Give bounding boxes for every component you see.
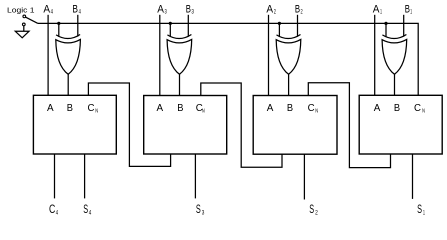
wire: carry net FA3 carry-out to FA4 CN [88,83,170,166]
svg-text:4: 4 [89,211,92,217]
label B3 [186,4,194,16]
svg-text:N: N [422,108,425,114]
ground [15,31,29,38]
svg-text:B: B [295,4,300,16]
pin label B (FA2) [287,102,293,114]
pin label B (FA4) [67,102,73,114]
svg-text:Logic 1: Logic 1 [7,6,35,15]
wire XOR3 output to FA2 pin B [288,74,290,96]
svg-text:2: 2 [315,211,318,217]
svg-text:B: B [405,4,410,16]
svg-text:4: 4 [56,211,59,217]
label A1 [373,4,382,16]
pin label CN (FA1) [414,102,425,115]
label C4 [49,202,59,216]
pin label CN (FA4) [88,102,99,115]
wire S1 output [412,154,414,199]
svg-text:A: A [43,4,50,16]
wire B4 input [77,15,79,37]
wire XOR1 left input [58,23,60,36]
svg-text:3: 3 [165,9,168,16]
svg-text:C: C [308,102,315,114]
svg-text:4: 4 [79,9,81,16]
wire B3 input [187,15,189,37]
wire S2 output [303,154,305,199]
svg-text:C: C [49,202,56,216]
label S2 [309,202,318,216]
wire XOR1 output to FA4 pin B [67,74,69,96]
wire A3 input [159,15,161,96]
node: rail to XOR1 junction [58,22,60,24]
label S1 [417,202,425,216]
wire ground stub [23,26,25,31]
svg-text:B: B [72,4,78,16]
svg-text:A: A [374,102,381,114]
wire C4 output [54,154,56,198]
svg-text:N: N [315,108,318,114]
pin label A (FA4) [47,102,54,114]
wire A4 input [47,15,49,96]
svg-text:B: B [177,102,183,114]
svg-text:4: 4 [51,9,54,16]
pin label A (FA2) [267,102,274,114]
wire A2 input [268,15,270,96]
full adder FA2 (bit 2) [253,96,337,155]
pin label B (FA1) [394,102,400,114]
wire B1 input [403,15,405,37]
node: rail to XOR2 junction [169,22,171,24]
wire XOR4 left input [385,23,387,36]
wire B2 input [297,15,299,37]
svg-text:C: C [88,102,95,114]
svg-text:B: B [186,4,191,16]
wire: carry net FA2 carry-out to FA3 CN [201,83,282,167]
svg-text:S: S [309,202,314,216]
wire: add/sub control rail (node M) [38,23,418,95]
svg-text:N: N [95,108,98,114]
label A4 [43,4,53,16]
svg-text:N: N [202,108,205,114]
svg-text:S: S [417,202,422,216]
switch SW1 contact (Logic 1 pole) [23,15,26,18]
svg-text:A: A [157,102,164,114]
svg-text:B: B [287,102,293,114]
label S3 [196,202,205,216]
full adder FA4 (bit 4) [33,95,116,154]
xor gate U2 [167,35,192,75]
full adder FA3 (bit 3) [144,96,227,155]
svg-text:A: A [267,102,274,114]
xor gate U1 [56,35,81,75]
svg-text:3: 3 [191,9,194,16]
svg-text:A: A [157,4,164,16]
full adder FA1 (bit 1) [359,95,442,154]
label B4 [72,4,81,16]
switch SW1 arm (wire to rail) [26,17,38,23]
pin label CN (FA2) [308,102,319,115]
wire XOR3 left input [278,23,280,36]
wire A1 input [374,15,376,96]
svg-text:2: 2 [274,9,276,16]
wire XOR4 output to FA1 pin B [394,74,396,96]
label B2 [295,4,303,16]
svg-text:1: 1 [410,9,412,16]
wire S3 output [194,154,196,198]
svg-text:S: S [83,202,88,216]
svg-text:1: 1 [380,9,382,16]
pin label A (FA1) [374,102,381,114]
svg-text:2: 2 [301,9,303,16]
pin label CN (FA3) [196,102,205,115]
xor gate U4 [382,35,407,75]
svg-text:A: A [373,4,380,16]
label B1 [405,4,413,16]
svg-text:A: A [47,102,54,114]
svg-text:B: B [394,102,400,114]
pin label B (FA3) [177,102,183,114]
svg-text:A: A [266,4,273,16]
label A3 [157,4,167,16]
pin label A (FA3) [157,102,164,114]
svg-text:3: 3 [202,211,205,217]
wire S4 output [84,154,86,198]
wire XOR2 left input [169,23,171,36]
svg-text:B: B [67,102,73,114]
label S4 [83,202,91,216]
xor gate U3 [276,35,301,75]
svg-text:1: 1 [423,211,425,217]
switch SW1 contact (ground pole) [22,23,25,26]
wire: carry net FA1 carry-out to FA2 CN [308,83,390,168]
wire XOR2 output to FA3 pin B [179,74,181,96]
label A2 [266,4,276,16]
svg-text:S: S [196,202,201,216]
svg-text:C: C [414,102,421,114]
node: rail to XOR4 junction [385,22,387,24]
node: rail to XOR3 junction [278,22,280,24]
